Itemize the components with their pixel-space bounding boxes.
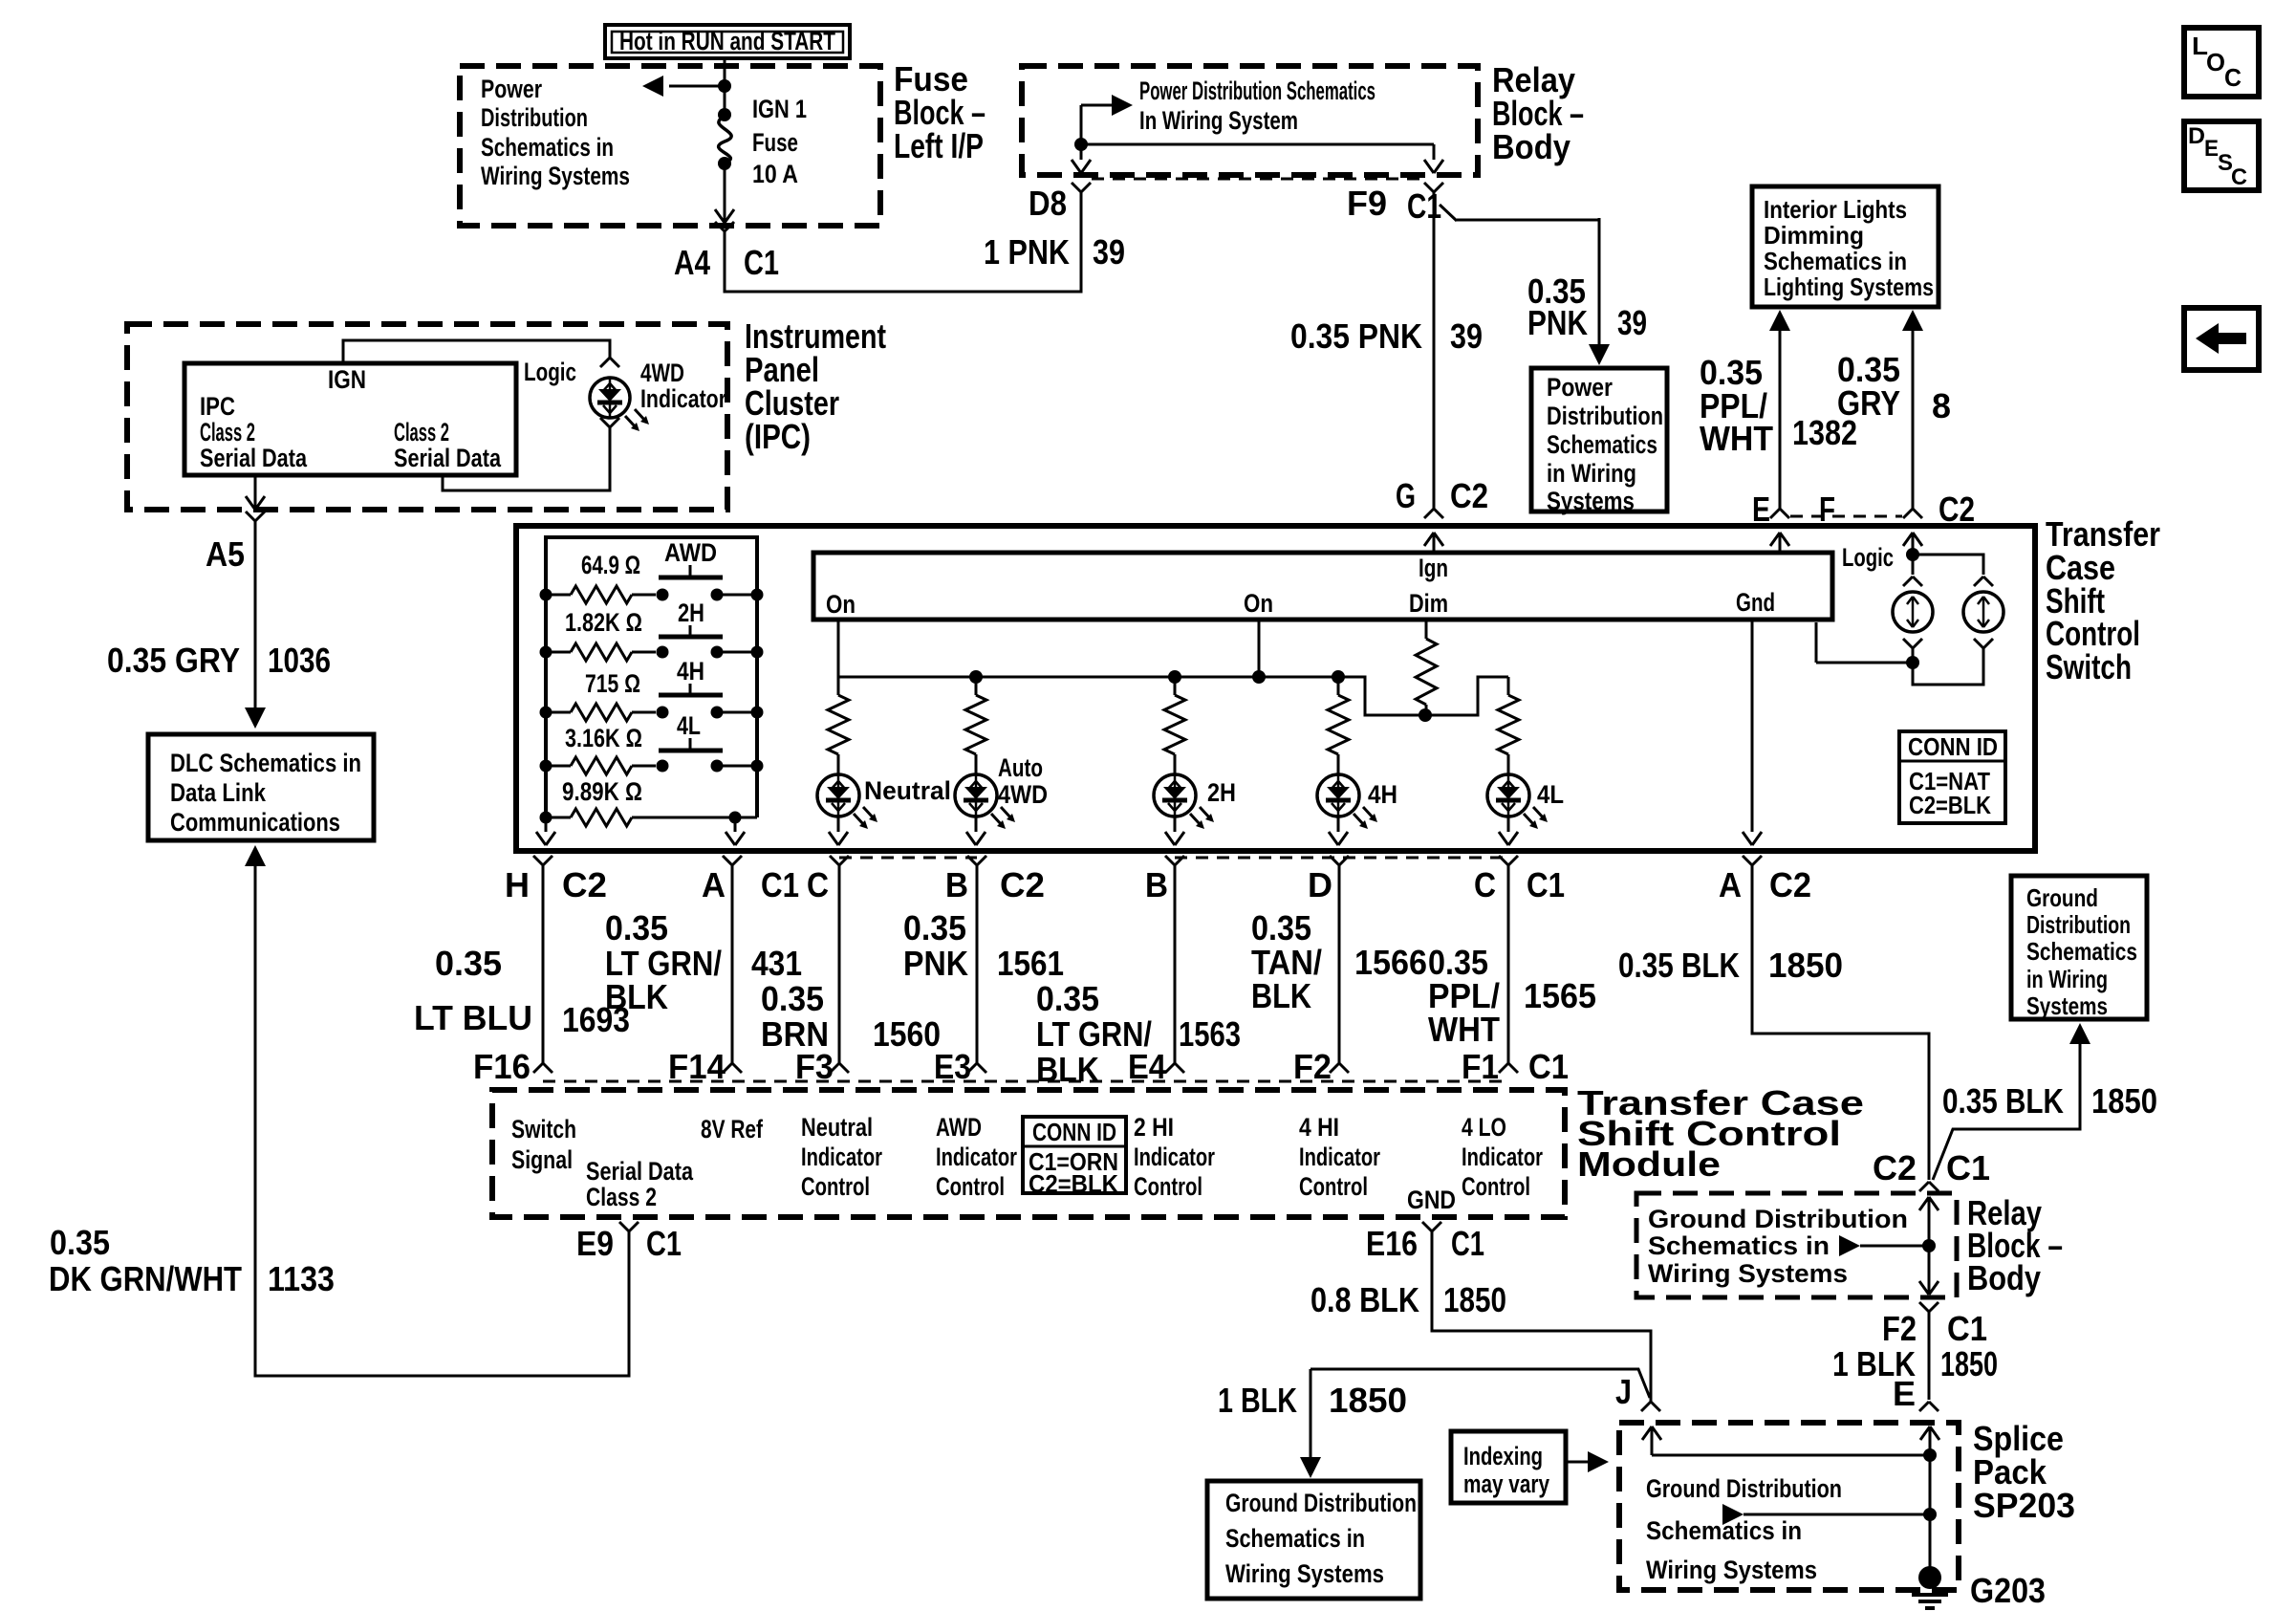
wire through relay block body (1919, 1197, 1939, 1295)
wire On rail (838, 620, 1508, 715)
svg-text:WHT: WHT (1700, 419, 1773, 458)
svg-text:in Wiring: in Wiring (2026, 965, 2108, 993)
label 1 PNK 39 (984, 232, 1125, 272)
label C (pin) (807, 865, 829, 904)
label DLC Schematics in Data Link Communications (170, 749, 361, 837)
svg-text:1560: 1560 (873, 1014, 941, 1054)
svg-text:Switch: Switch (511, 1115, 576, 1143)
label C1 (pin A) (761, 865, 799, 904)
label Ign (1419, 554, 1448, 582)
label 0.35 PNK 1561 (903, 908, 1064, 983)
svg-text:4H: 4H (677, 657, 704, 686)
wire 8 GRY (F) (1902, 310, 1923, 518)
svg-text:may vary: may vary (1463, 1469, 1549, 1498)
label E4 (1128, 1047, 1166, 1086)
label Neutral Indicator Control (801, 1113, 882, 1201)
DLC schematics box (148, 734, 374, 840)
wire fuse to A4 with arrow (715, 163, 734, 223)
back arrow box (2184, 308, 2259, 370)
svg-text:1382: 1382 (1792, 413, 1857, 452)
svg-text:1850: 1850 (1940, 1344, 1998, 1383)
svg-text:1850: 1850 (2091, 1081, 2157, 1121)
svg-text:F9: F9 (1347, 184, 1387, 223)
svg-text:Neutral: Neutral (864, 776, 951, 805)
wire 4WD indicator to logic (443, 418, 619, 490)
connector A4 C1 (715, 222, 734, 231)
label A5 (206, 534, 245, 574)
arrow to power distribution schematics (642, 76, 731, 97)
svg-text:E16: E16 (1366, 1224, 1418, 1263)
svg-text:C2: C2 (1000, 865, 1045, 904)
svg-text:in Wiring: in Wiring (1547, 459, 1636, 488)
switch wiper common box (Ign/On/Dim/Gnd) (813, 553, 1832, 620)
resistor ladder box (546, 537, 757, 817)
label C (pin 2) (1474, 865, 1496, 904)
svg-text:4WD: 4WD (640, 359, 684, 387)
svg-text:1566: 1566 (1354, 943, 1427, 982)
svg-text:0.35 GRY: 0.35 GRY (107, 641, 240, 680)
label AWD Indicator Control (936, 1113, 1017, 1201)
svg-text:Distribution: Distribution (2026, 910, 2131, 939)
svg-text:Ground: Ground (2026, 883, 2098, 912)
label C2 (pin B) (1000, 865, 1045, 904)
label 4WD Indicator (640, 359, 726, 413)
label Interior Lights Dimming Schematics in Lighting Systems (1764, 195, 1934, 301)
svg-text:G203: G203 (1970, 1571, 2046, 1610)
label 1 BLK 1850 (left) (1218, 1381, 1407, 1420)
label GND (1407, 1186, 1456, 1214)
svg-text:(IPC): (IPC) (745, 417, 811, 456)
svg-text:2H: 2H (678, 599, 704, 627)
label Dim (1409, 589, 1448, 618)
label E (splice pin) (1893, 1374, 1916, 1413)
label C2 (relay body) (1873, 1148, 1917, 1187)
relay block - body dashed box (bottom) (1636, 1193, 1957, 1297)
label 0.35 BRN 1560 (761, 979, 941, 1054)
power label box: Hot in RUN and START (605, 25, 850, 58)
label 1.82K Ω (565, 608, 642, 637)
power distribution schematics box (solid) (1531, 368, 1667, 512)
svg-text:AWD: AWD (664, 538, 717, 567)
label 0.35 PPL/WHT (1700, 353, 1773, 458)
svg-text:1133: 1133 (268, 1259, 335, 1298)
svg-text:C2: C2 (1450, 476, 1488, 515)
svg-text:C1: C1 (646, 1224, 682, 1263)
svg-text:Control: Control (1299, 1172, 1368, 1201)
label 0.35 LT GRN/BLK 1563 (1036, 979, 1241, 1089)
label F (switch pin) (1819, 490, 1835, 529)
svg-text:0.35 BLK: 0.35 BLK (1618, 946, 1740, 985)
wire Gnd pin A (1743, 620, 1762, 845)
label Serial Data Class 2 (586, 1157, 694, 1211)
wire pin A/F14 (723, 856, 742, 1073)
LED 4H indicator (1317, 759, 1377, 845)
svg-text:64.9 Ω: 64.9 Ω (581, 551, 640, 579)
svg-text:F2: F2 (1882, 1309, 1917, 1348)
svg-text:1850: 1850 (1329, 1381, 1407, 1420)
svg-text:B: B (1145, 865, 1168, 904)
svg-text:Dimming: Dimming (1764, 221, 1864, 250)
label 64.9 Ω (581, 551, 640, 579)
connector F9 C1 (1424, 183, 1443, 192)
wire F pin to logic node (1903, 533, 1922, 575)
svg-text:Control: Control (1134, 1172, 1202, 1201)
svg-text:1 BLK: 1 BLK (1218, 1381, 1297, 1420)
arrow into splice ground wire (1722, 1504, 1937, 1525)
relay block - body dashed box (top) (1022, 66, 1478, 175)
svg-text:8: 8 (1932, 386, 1951, 425)
svg-text:D: D (1308, 865, 1332, 904)
label 715 Ω (585, 669, 640, 698)
svg-text:2H: 2H (1207, 778, 1236, 807)
svg-text:Control: Control (936, 1172, 1005, 1201)
resistor Auto 4WD branch (965, 677, 986, 759)
svg-text:Class 2: Class 2 (394, 418, 449, 446)
label C1 (fuse block) (744, 243, 779, 282)
svg-text:1565: 1565 (1524, 976, 1596, 1015)
svg-text:39: 39 (1617, 303, 1647, 342)
wire J into splice pack (1642, 1426, 1937, 1462)
wire 39 PNK from A4 to D8 (725, 192, 1081, 292)
ground G203 (1912, 1566, 1948, 1608)
svg-text:J: J (1615, 1372, 1632, 1411)
DESC box (2184, 121, 2259, 190)
wire inside relay block F9 branch (1081, 144, 1443, 173)
svg-text:Schematics in: Schematics in (1764, 247, 1907, 275)
ground distribution box (top right) (2011, 876, 2147, 1019)
svg-text:C: C (807, 865, 829, 904)
svg-text:A4: A4 (674, 243, 710, 282)
label F2 (module) (1293, 1047, 1332, 1086)
svg-text:Indicator: Indicator (640, 384, 726, 413)
label A (gnd pin) (1719, 865, 1742, 904)
svg-text:0.35 PNK: 0.35 PNK (1290, 316, 1422, 356)
CONN ID box (module) (1023, 1117, 1126, 1198)
wire 1850 BLK from ground distribution (1933, 1023, 2090, 1180)
svg-text:Schematics in: Schematics in (481, 133, 614, 162)
label 0.35 GRY (1837, 350, 1900, 423)
arrow into relay ground wire (1839, 1235, 1936, 1256)
svg-text:Lighting Systems: Lighting Systems (1764, 272, 1934, 301)
label Instrument Panel Cluster (IPC) (745, 316, 886, 456)
svg-text:BLK: BLK (1251, 976, 1311, 1015)
label A4 (674, 243, 710, 282)
label E3 (934, 1047, 971, 1086)
interior lights dimming schematics box (1752, 186, 1939, 307)
svg-text:C: C (1474, 865, 1496, 904)
label J (1615, 1372, 1632, 1411)
svg-text:CONN ID: CONN ID (1908, 732, 1998, 761)
svg-text:0.8 BLK: 0.8 BLK (1310, 1280, 1419, 1319)
label IPC (200, 392, 235, 421)
resistor 4L branch (1498, 677, 1519, 759)
label Indexing may vary (1463, 1442, 1549, 1498)
wire 8V ref A (726, 817, 745, 845)
label C1 (relay F2) (1947, 1309, 1987, 1348)
svg-text:Schematics: Schematics (1547, 430, 1657, 459)
label Power Distribution Schematics in Wiring Systems (solid box) (1547, 373, 1663, 515)
svg-text:F14: F14 (668, 1047, 726, 1086)
label H (505, 865, 530, 904)
wire IGN to 4WD indicator (343, 340, 619, 367)
svg-text:Indexing: Indexing (1463, 1442, 1543, 1470)
svg-text:Indicator: Indicator (1462, 1143, 1543, 1171)
svg-text:In Wiring System: In Wiring System (1139, 106, 1298, 135)
current source left (1893, 592, 1933, 632)
label Relay Block - Body (bottom) (1967, 1193, 2063, 1297)
svg-text:C2: C2 (1873, 1148, 1917, 1187)
svg-text:CONN ID: CONN ID (1032, 1118, 1116, 1146)
label 0.35 PPL/WHT 1565 (1428, 943, 1596, 1049)
svg-text:Control: Control (801, 1172, 870, 1201)
label C2 (gnd pin) (1769, 865, 1811, 904)
svg-text:9.89K Ω: 9.89K Ω (562, 777, 642, 806)
connector F2 C1 (1919, 1302, 1939, 1312)
resistor R1 64.9 ohm row (540, 586, 764, 603)
label C1 (E9) (646, 1224, 682, 1263)
svg-text:1850: 1850 (1443, 1280, 1506, 1319)
label 0.35 PNK 39 (branch) (1527, 272, 1647, 342)
svg-text:WHT: WHT (1428, 1010, 1500, 1049)
wire E pin into switch (1770, 533, 1789, 553)
label D (pin) (1308, 865, 1332, 904)
svg-text:Indicator: Indicator (936, 1143, 1017, 1171)
resistor Neutral branch (828, 677, 849, 759)
svg-text:39: 39 (1093, 232, 1125, 272)
svg-text:C1: C1 (1947, 1309, 1987, 1348)
arrow right inside relay block (1081, 95, 1133, 116)
label IGN (328, 365, 366, 394)
wire 39 PNK branch to power distribution (1440, 205, 1610, 365)
svg-text:0.35: 0.35 (605, 908, 668, 947)
svg-text:8V Ref: 8V Ref (701, 1115, 764, 1143)
label 4 HI Indicator Control (1299, 1113, 1380, 1201)
wire from Hot box to fuse (724, 58, 726, 114)
svg-text:Gnd: Gnd (1736, 588, 1775, 617)
svg-text:G: G (1396, 476, 1416, 515)
label Transfer Case Shift Control Switch (2046, 514, 2160, 686)
svg-text:Wiring Systems: Wiring Systems (481, 162, 630, 190)
label On (left) (826, 590, 856, 619)
svg-text:Schematics: Schematics (2026, 937, 2137, 966)
resistor dim (1416, 620, 1437, 715)
wire On middle drop (1258, 620, 1261, 677)
svg-text:On: On (1244, 589, 1273, 618)
resistor R2 1.82K ohm row (540, 643, 764, 661)
ground distribution box (bottom) (1207, 1481, 1420, 1599)
transfer case shift control switch box (516, 526, 2035, 851)
label Ground Distribution Schematics in Wiring Systems (bottom box) (1225, 1489, 1417, 1588)
svg-text:Class 2: Class 2 (586, 1183, 657, 1211)
wire A5 exit from IPC (246, 475, 265, 510)
svg-text:Systems: Systems (1547, 487, 1635, 515)
svg-text:0.35: 0.35 (435, 944, 502, 983)
wire switch signal H (536, 817, 555, 845)
label 0.8 BLK 1850 (1310, 1280, 1506, 1319)
label Ground Distribution Schematics in Wiring Systems (top right) (2026, 883, 2137, 1020)
svg-text:A5: A5 (206, 534, 245, 574)
svg-text:C2: C2 (562, 865, 607, 904)
svg-text:4WD: 4WD (998, 780, 1048, 809)
svg-text:Indicator: Indicator (1299, 1143, 1380, 1171)
resistor R5 9.89K ohm row (540, 809, 758, 826)
switch position 4L (659, 711, 723, 751)
svg-text:B: B (945, 865, 968, 904)
label 0.35 BLK 1850 (right) (1942, 1081, 2157, 1121)
svg-text:E3: E3 (934, 1047, 971, 1086)
svg-text:Auto: Auto (998, 753, 1043, 782)
label Class 2 Serial Data (left) (200, 418, 308, 472)
svg-text:F2: F2 (1293, 1047, 1332, 1086)
svg-text:Power: Power (1547, 373, 1613, 402)
LED Neutral indicator (817, 759, 877, 845)
svg-text:Serial Data: Serial Data (586, 1157, 694, 1186)
label B (pin) (945, 865, 968, 904)
LED Auto 4WD indicator (955, 759, 1015, 845)
label 2 HI Indicator Control (1134, 1113, 1215, 1201)
dashed connector line module top (543, 1080, 1508, 1083)
svg-text:Ign: Ign (1419, 554, 1448, 582)
label IGN 1 Fuse 10 A (752, 95, 807, 188)
label C1 (module F1) (1528, 1047, 1569, 1086)
svg-text:Class 2: Class 2 (200, 418, 255, 446)
resistor R4 3.16K ohm row (540, 757, 764, 774)
svg-text:Serial Data: Serial Data (394, 444, 502, 472)
label Switch Signal (511, 1115, 576, 1174)
svg-text:Signal: Signal (511, 1145, 573, 1174)
svg-text:Ground Distribution: Ground Distribution (1646, 1474, 1842, 1503)
svg-text:4 LO: 4 LO (1462, 1113, 1506, 1142)
wire G pin into switch (1424, 533, 1443, 553)
svg-text:DK GRN/WHT: DK GRN/WHT (49, 1259, 242, 1298)
label Relay Block - Body (top) (1492, 60, 1584, 166)
label 0.35 TAN/BLK 1566 (1251, 908, 1427, 1015)
IPC inner solid box (184, 363, 516, 475)
svg-text:C: C (2231, 164, 2247, 190)
svg-text:C1: C1 (1946, 1148, 1990, 1187)
wire 1850 BLK from switch A to relay block (1743, 856, 1939, 1191)
svg-text:1850: 1850 (1768, 946, 1843, 985)
current source right connector (1974, 577, 1993, 586)
svg-text:BLK: BLK (1036, 1050, 1099, 1089)
svg-text:Wiring Systems: Wiring Systems (1646, 1556, 1817, 1584)
dashed connector line C-B (switch bottom) (839, 857, 977, 860)
label 8V Ref (701, 1115, 764, 1143)
label 0.35 LT GRN/BLK 431 (605, 908, 802, 1016)
label Auto 4WD (998, 753, 1048, 809)
wire inside relay block D8 branch (1072, 105, 1091, 173)
label F9 (1347, 184, 1387, 223)
svg-text:F: F (1819, 490, 1835, 529)
svg-text:D: D (2188, 123, 2205, 149)
svg-text:IGN 1: IGN 1 (752, 95, 807, 123)
wire 39 PNK from F9 to G (1424, 192, 1443, 518)
label C2 (switch top) (1939, 490, 1975, 529)
label 4 LO Indicator Control (1462, 1113, 1543, 1201)
svg-text:2 HI: 2 HI (1134, 1113, 1174, 1142)
svg-text:Fuse: Fuse (752, 128, 798, 157)
svg-text:Dim: Dim (1409, 589, 1448, 618)
label A (pin) (702, 865, 726, 904)
wire E into splice pack (1920, 1426, 1939, 1578)
resistor 4H branch (1328, 677, 1349, 759)
svg-text:431: 431 (751, 944, 802, 983)
switch position 4H (659, 657, 723, 695)
wire current sources return (1816, 622, 1993, 685)
svg-text:1.82K Ω: 1.82K Ω (565, 608, 642, 637)
svg-text:4H: 4H (1368, 780, 1397, 809)
svg-text:F3: F3 (795, 1047, 834, 1086)
svg-text:Power: Power (481, 75, 542, 103)
svg-text:Ground Distribution: Ground Distribution (1225, 1489, 1417, 1517)
wire pin C/F1 (1499, 856, 1518, 1073)
dashed connector line D8-F9 (1092, 178, 1423, 181)
svg-text:Module: Module (1577, 1144, 1721, 1184)
splice pack SP203 dashed box (1619, 1423, 1959, 1590)
svg-text:0.35: 0.35 (1036, 979, 1099, 1018)
wire 1850 BLK splice feed (1300, 1369, 1650, 1478)
resistor R3 715 ohm row (540, 704, 764, 721)
label Ground Distribution Schematics in Wiring Systems (splice) (1646, 1474, 1842, 1584)
label 4L (LED) (1537, 780, 1564, 809)
label Logic (switch) (1842, 543, 1894, 572)
4WD indicator LED (590, 378, 649, 431)
wire pin D/F2 (1330, 856, 1349, 1073)
svg-text:DLC Schematics in: DLC Schematics in (170, 749, 361, 777)
label 1382 (1792, 413, 1857, 452)
wire pin H/F16 (533, 856, 552, 1073)
label 1 BLK 1850 (relay) (1832, 1344, 1998, 1383)
label 0.35 GRY 1036 (107, 641, 331, 680)
label G C2 (1396, 476, 1488, 515)
svg-text:PNK: PNK (1527, 303, 1588, 342)
label C1 (pin C) (1527, 865, 1565, 904)
svg-text:C2=BLK: C2=BLK (1029, 1169, 1118, 1198)
svg-text:Distribution: Distribution (481, 103, 588, 132)
connector D8 (1072, 183, 1091, 192)
wire logic branch to right current source (1913, 555, 1983, 575)
svg-text:0.35: 0.35 (761, 979, 824, 1018)
label 9.89K Ω (562, 777, 642, 806)
svg-text:E: E (1752, 490, 1770, 529)
label F3 (795, 1047, 834, 1086)
resistor 2H branch (1164, 677, 1185, 759)
label 2H (LED) (1207, 778, 1236, 807)
fuse IGN 1 10A (718, 108, 731, 170)
svg-text:D8: D8 (1029, 184, 1067, 223)
svg-text:Power Distribution Schematics: Power Distribution Schematics (1139, 76, 1375, 105)
wire pin C/F3 (830, 856, 849, 1073)
svg-text:10 A: 10 A (752, 160, 798, 188)
svg-text:Communications: Communications (170, 808, 340, 837)
label Gnd (1736, 588, 1775, 617)
label E16 (1366, 1224, 1418, 1263)
svg-text:IPC: IPC (200, 392, 235, 421)
label Power Distribution Schematics in Wiring Systems (fuse block) (481, 75, 630, 190)
label B (pin 2) (1145, 865, 1168, 904)
label E9 (576, 1224, 614, 1263)
svg-text:A: A (1719, 865, 1742, 904)
svg-text:C2: C2 (1939, 490, 1975, 529)
label Ground Distribution Schematics in Wiring Systems (relay) (1648, 1205, 1908, 1288)
svg-text:E: E (1893, 1374, 1916, 1413)
current source right (1963, 592, 2004, 632)
label F1 (1462, 1047, 1499, 1086)
svg-text:0.35: 0.35 (50, 1223, 110, 1262)
wire 1850 BLK 0.8 from E16 to J (1432, 1231, 1660, 1411)
junction dots on rail (969, 670, 1432, 722)
svg-text:4L: 4L (1537, 780, 1564, 809)
